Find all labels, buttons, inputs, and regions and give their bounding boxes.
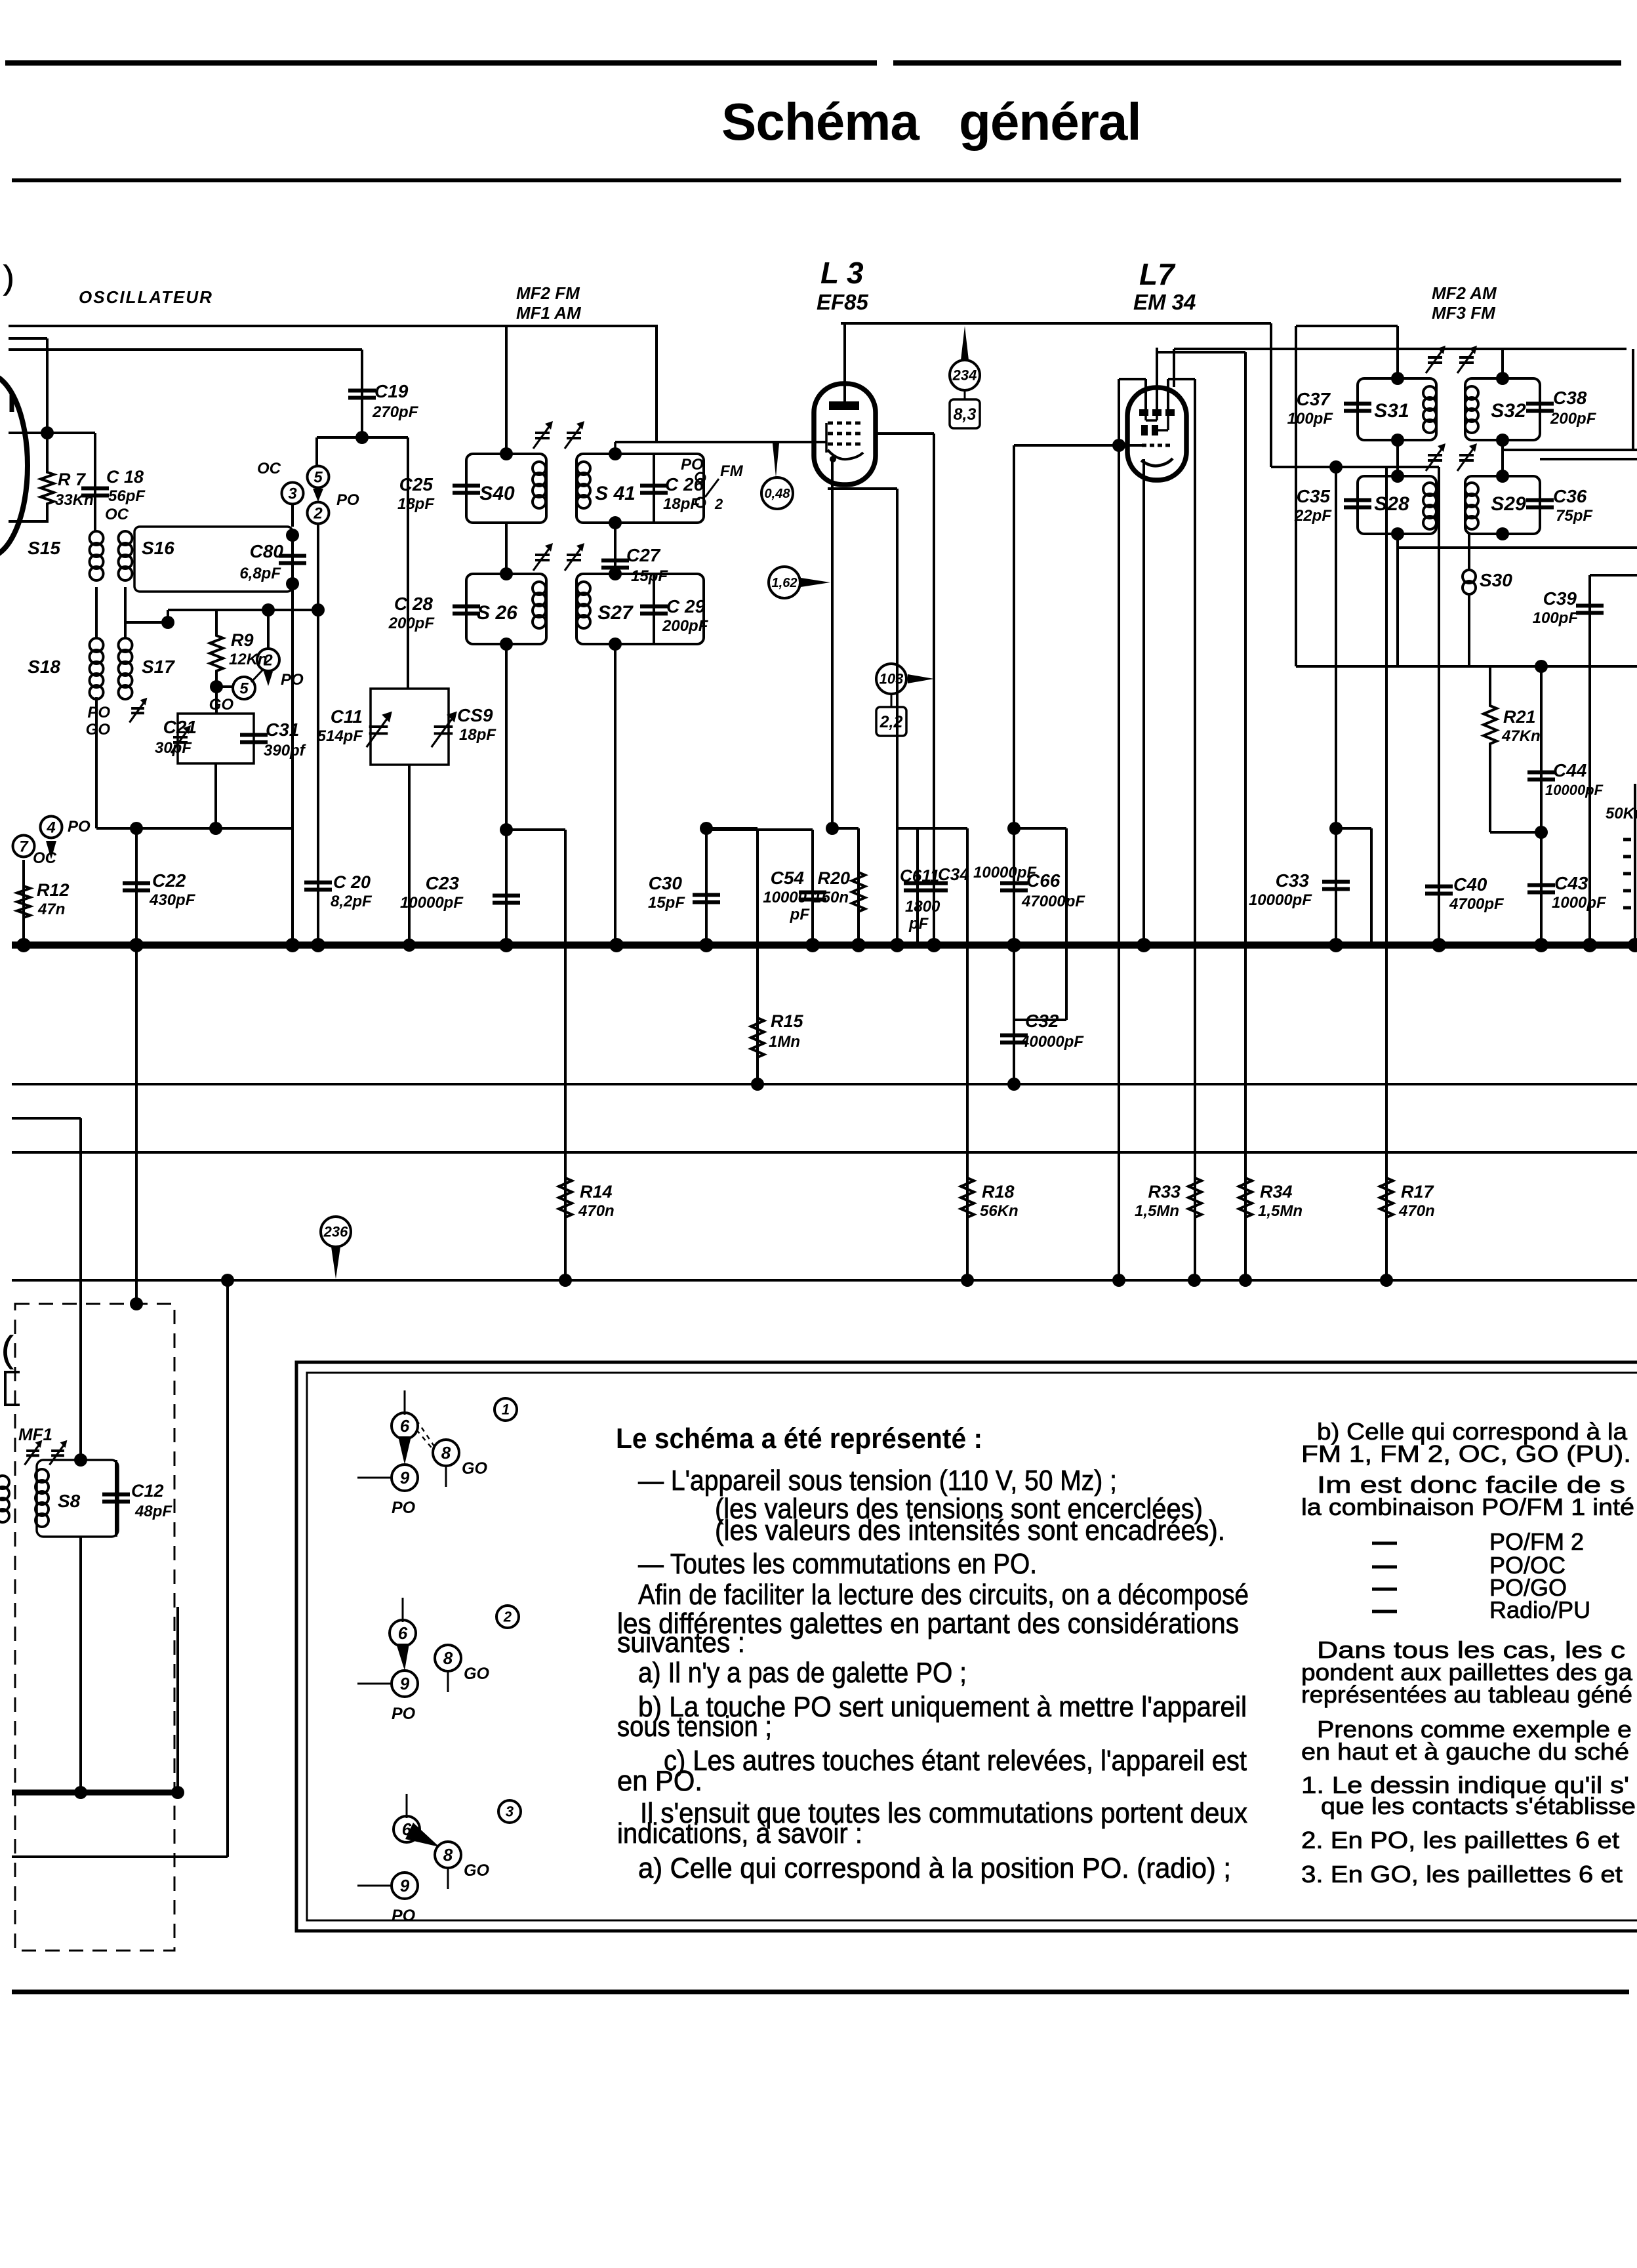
svg-text:3: 3: [506, 1804, 514, 1820]
svg-text:100pF: 100pF: [1287, 410, 1334, 428]
svg-text:C43: C43: [1554, 873, 1588, 893]
svg-text:C23: C23: [426, 873, 460, 893]
svg-text:2: 2: [313, 504, 323, 522]
svg-text:général: général: [959, 92, 1141, 151]
svg-text:MF3 FM: MF3 FM: [1432, 303, 1496, 323]
svg-text:a) Celle qui correspond à la p: a) Celle qui correspond à la position PO…: [638, 1852, 1231, 1884]
svg-text:270pF: 270pF: [372, 403, 419, 421]
svg-text:234: 234: [952, 367, 977, 384]
svg-text:C 26: C 26: [665, 474, 704, 495]
svg-text:40000pF: 40000pF: [1020, 1033, 1084, 1051]
svg-text:56Kn: 56Kn: [980, 1202, 1019, 1220]
svg-text:Le schéma a été représenté :: Le schéma a été représenté :: [616, 1423, 982, 1455]
svg-text:S30: S30: [1480, 570, 1512, 590]
svg-text:1: 1: [502, 1402, 510, 1418]
svg-text:L7: L7: [1139, 257, 1176, 291]
svg-text:S29: S29: [1491, 493, 1526, 515]
svg-text:GO: GO: [86, 721, 111, 739]
svg-text:1000pF: 1000pF: [1552, 894, 1607, 912]
svg-text:15pF: 15pF: [648, 894, 685, 912]
svg-text:200pF: 200pF: [662, 617, 709, 635]
svg-text:50Kn: 50Kn: [1606, 805, 1637, 822]
svg-text:C66: C66: [1026, 870, 1061, 891]
svg-text:2: 2: [503, 1609, 512, 1625]
svg-text:48pF: 48pF: [134, 1503, 172, 1520]
svg-text:2: 2: [714, 496, 723, 512]
svg-text:22pF: 22pF: [1294, 507, 1332, 525]
svg-text:(les valeurs des intensités so: (les valeurs des intensités sont encadré…: [715, 1514, 1225, 1547]
svg-text:390pf: 390pf: [264, 742, 306, 759]
svg-text:MF2 AM: MF2 AM: [1432, 283, 1497, 303]
svg-text:10000pF: 10000pF: [1545, 782, 1604, 798]
svg-text:C611: C611: [900, 866, 939, 885]
svg-text:C39: C39: [1543, 588, 1577, 609]
svg-text:1Mn: 1Mn: [769, 1033, 800, 1051]
svg-text:9: 9: [400, 1468, 410, 1488]
svg-text:C21: C21: [163, 717, 197, 737]
svg-text:514pF: 514pF: [317, 727, 364, 745]
svg-text:R20: R20: [817, 868, 850, 888]
svg-text:C35: C35: [1297, 486, 1331, 506]
svg-text:75pF: 75pF: [1556, 507, 1593, 525]
svg-text:(: (: [1, 1328, 14, 1369]
svg-text:2,2: 2,2: [879, 713, 903, 731]
svg-text:C40: C40: [1453, 874, 1487, 895]
svg-text:que les contacts s'établisse: que les contacts s'établisse: [1321, 1792, 1636, 1819]
svg-text:a) Il n'y a pas de galette PO: a) Il n'y a pas de galette PO ;: [638, 1657, 967, 1689]
svg-text:47000pF: 47000pF: [1021, 893, 1085, 910]
svg-text:FM: FM: [720, 462, 744, 480]
svg-text:PO: PO: [336, 491, 359, 509]
svg-text:8: 8: [443, 1648, 453, 1668]
svg-text:R9: R9: [231, 630, 254, 650]
svg-text:6: 6: [400, 1416, 410, 1436]
svg-text:R15: R15: [771, 1011, 804, 1031]
svg-text:18pF: 18pF: [663, 495, 700, 513]
svg-text:OSCILLATEUR: OSCILLATEUR: [79, 287, 213, 307]
svg-text:200pF: 200pF: [388, 615, 435, 632]
svg-text:CS9: CS9: [457, 705, 493, 725]
svg-text:15pF: 15pF: [631, 567, 668, 585]
svg-text:Schéma: Schéma: [721, 92, 920, 151]
svg-text:PO/FM 2: PO/FM 2: [1489, 1528, 1584, 1555]
svg-text:S31: S31: [1374, 400, 1409, 422]
svg-text:1,62: 1,62: [772, 576, 798, 590]
svg-text:GO: GO: [209, 696, 234, 714]
svg-text:100pF: 100pF: [1533, 609, 1579, 627]
svg-text:EF85: EF85: [817, 290, 869, 314]
svg-text:6,8pF: 6,8pF: [239, 565, 281, 582]
svg-text:C44: C44: [1553, 760, 1587, 780]
svg-text:C38: C38: [1553, 388, 1587, 408]
svg-text:1,5Mn: 1,5Mn: [1135, 1202, 1179, 1220]
svg-text:PO: PO: [392, 1499, 416, 1517]
svg-text:OC: OC: [33, 849, 57, 867]
svg-text:8,3: 8,3: [954, 405, 977, 424]
svg-text:236: 236: [323, 1224, 348, 1240]
svg-text:S28: S28: [1374, 493, 1409, 515]
svg-text:2: 2: [263, 651, 273, 669]
svg-text:430pF: 430pF: [149, 891, 196, 909]
svg-text:S40: S40: [479, 483, 515, 504]
svg-text:5: 5: [313, 468, 323, 486]
svg-text:1800: 1800: [905, 898, 940, 916]
svg-text:6: 6: [398, 1623, 408, 1643]
svg-text:sous tension ;: sous tension ;: [617, 1711, 772, 1743]
svg-text:indications, à savoir :: indications, à savoir :: [617, 1817, 862, 1850]
svg-text:18pF: 18pF: [459, 726, 496, 744]
svg-text:C54: C54: [771, 868, 805, 888]
svg-text:C 28: C 28: [394, 594, 434, 614]
svg-text:Radio/PU: Radio/PU: [1489, 1596, 1590, 1623]
svg-text:200pF: 200pF: [1550, 410, 1597, 428]
svg-text:56pF: 56pF: [108, 487, 146, 505]
svg-text:— Toutes les commutations en P: — Toutes les commutations en PO.: [638, 1548, 1037, 1580]
svg-text:12Kn: 12Kn: [229, 651, 268, 668]
svg-text:3: 3: [288, 485, 297, 502]
svg-text:3. En GO, les paillettes 6 et: 3. En GO, les paillettes 6 et: [1301, 1861, 1623, 1888]
svg-text:PO: PO: [681, 456, 704, 474]
svg-text:C27: C27: [626, 545, 661, 565]
svg-text:C 18: C 18: [106, 467, 144, 487]
svg-text:C34: C34: [938, 864, 969, 884]
svg-text:S16: S16: [142, 538, 174, 558]
svg-text:C30: C30: [649, 873, 683, 893]
svg-text:2. En PO, les paillettes 6 et: 2. En PO, les paillettes 6 et: [1301, 1827, 1619, 1853]
svg-text:GO: GO: [462, 1459, 487, 1478]
svg-text:FM 1, FM 2, OC, GO (PU).: FM 1, FM 2, OC, GO (PU).: [1301, 1440, 1631, 1467]
svg-text:S15: S15: [28, 538, 60, 558]
svg-text:OC: OC: [257, 460, 281, 477]
svg-text:R21: R21: [1503, 707, 1536, 727]
svg-text:18pF: 18pF: [397, 495, 435, 513]
svg-text:C37: C37: [1297, 389, 1331, 409]
svg-text:MF2 FM: MF2 FM: [516, 283, 580, 303]
svg-text:Afin de faciliter la lecture d: Afin de faciliter la lecture des circuit…: [638, 1579, 1249, 1611]
svg-text:47n: 47n: [37, 901, 65, 918]
svg-text:PO: PO: [392, 1907, 416, 1925]
svg-text:C36: C36: [1553, 486, 1587, 506]
svg-text:R34: R34: [1260, 1182, 1293, 1202]
svg-text:R18: R18: [982, 1182, 1015, 1202]
svg-text:S17: S17: [142, 657, 175, 677]
svg-text:470n: 470n: [1398, 1202, 1435, 1220]
svg-text:C25: C25: [399, 474, 434, 495]
svg-text:R17: R17: [1401, 1182, 1435, 1202]
svg-text:10000pF: 10000pF: [400, 894, 464, 912]
svg-text:5: 5: [239, 679, 249, 697]
svg-text:EM 34: EM 34: [1133, 290, 1196, 314]
svg-text:4700pF: 4700pF: [1449, 895, 1505, 913]
svg-text:PO: PO: [68, 818, 91, 836]
svg-text:S18: S18: [28, 657, 60, 677]
svg-text:S27: S27: [597, 602, 634, 624]
svg-text:10000: 10000: [763, 889, 807, 906]
svg-text:MF1 AM: MF1 AM: [516, 303, 582, 323]
svg-text:C19: C19: [374, 381, 409, 401]
svg-text:MF1: MF1: [18, 1425, 52, 1444]
svg-text:470n: 470n: [578, 1202, 615, 1220]
svg-text:GO: GO: [464, 1861, 489, 1880]
svg-text:10000pF: 10000pF: [1249, 891, 1312, 909]
svg-text:S32: S32: [1491, 400, 1526, 422]
svg-text:C32: C32: [1025, 1011, 1059, 1031]
svg-text:0,48: 0,48: [765, 487, 791, 501]
svg-text:représentées au tableau géné: représentées au tableau géné: [1301, 1681, 1632, 1708]
svg-text:R33: R33: [1148, 1182, 1181, 1202]
svg-text:pF: pF: [908, 915, 929, 933]
svg-text:9: 9: [400, 1674, 410, 1693]
svg-text:7: 7: [19, 838, 29, 855]
svg-text:30pF: 30pF: [155, 739, 192, 757]
svg-text:— L'appareil sous tension (110: — L'appareil sous tension (110 V, 50 Mz)…: [638, 1465, 1117, 1497]
svg-text:9: 9: [400, 1876, 410, 1895]
svg-text:L 3: L 3: [820, 256, 864, 290]
svg-text:la combinaison PO/FM 1 inté: la combinaison PO/FM 1 inté: [1301, 1493, 1634, 1520]
svg-text:103: 103: [879, 671, 904, 687]
svg-text:C 20: C 20: [333, 872, 371, 892]
svg-text:R14: R14: [580, 1182, 613, 1202]
svg-text:C33: C33: [1276, 870, 1310, 891]
svg-text:8: 8: [441, 1443, 451, 1463]
svg-text:C11: C11: [331, 706, 363, 727]
svg-text:GO: GO: [464, 1665, 489, 1683]
svg-text:PO: PO: [87, 704, 110, 721]
svg-text:S 41: S 41: [595, 483, 636, 504]
svg-text:8,2pF: 8,2pF: [331, 893, 373, 910]
svg-text:8: 8: [443, 1845, 453, 1865]
svg-text:suivantes :: suivantes :: [617, 1627, 745, 1659]
svg-text:c) Les autres touches étant re: c) Les autres touches étant relevées, l'…: [664, 1745, 1247, 1777]
svg-text:C12: C12: [131, 1481, 164, 1501]
svg-text:): ): [3, 259, 14, 296]
svg-text:PO: PO: [392, 1705, 416, 1723]
svg-text:C22: C22: [152, 870, 186, 891]
svg-text:R12: R12: [37, 880, 70, 900]
svg-text:S8: S8: [58, 1491, 81, 1511]
svg-text:4: 4: [46, 819, 55, 836]
svg-text:en haut et à gauche du sché: en haut et à gauche du sché: [1301, 1738, 1629, 1765]
svg-text:OC: OC: [105, 506, 129, 523]
svg-text:C 29: C 29: [666, 596, 706, 617]
svg-text:pF: pF: [790, 906, 811, 923]
svg-text:C31: C31: [266, 719, 299, 740]
svg-text:S 26: S 26: [477, 602, 517, 624]
svg-text:1,5Mn: 1,5Mn: [1258, 1202, 1303, 1220]
svg-text:47Kn: 47Kn: [1501, 727, 1541, 745]
svg-text:PO: PO: [281, 671, 304, 689]
svg-text:en PO.: en PO.: [617, 1765, 702, 1797]
svg-text:C80: C80: [250, 541, 284, 561]
